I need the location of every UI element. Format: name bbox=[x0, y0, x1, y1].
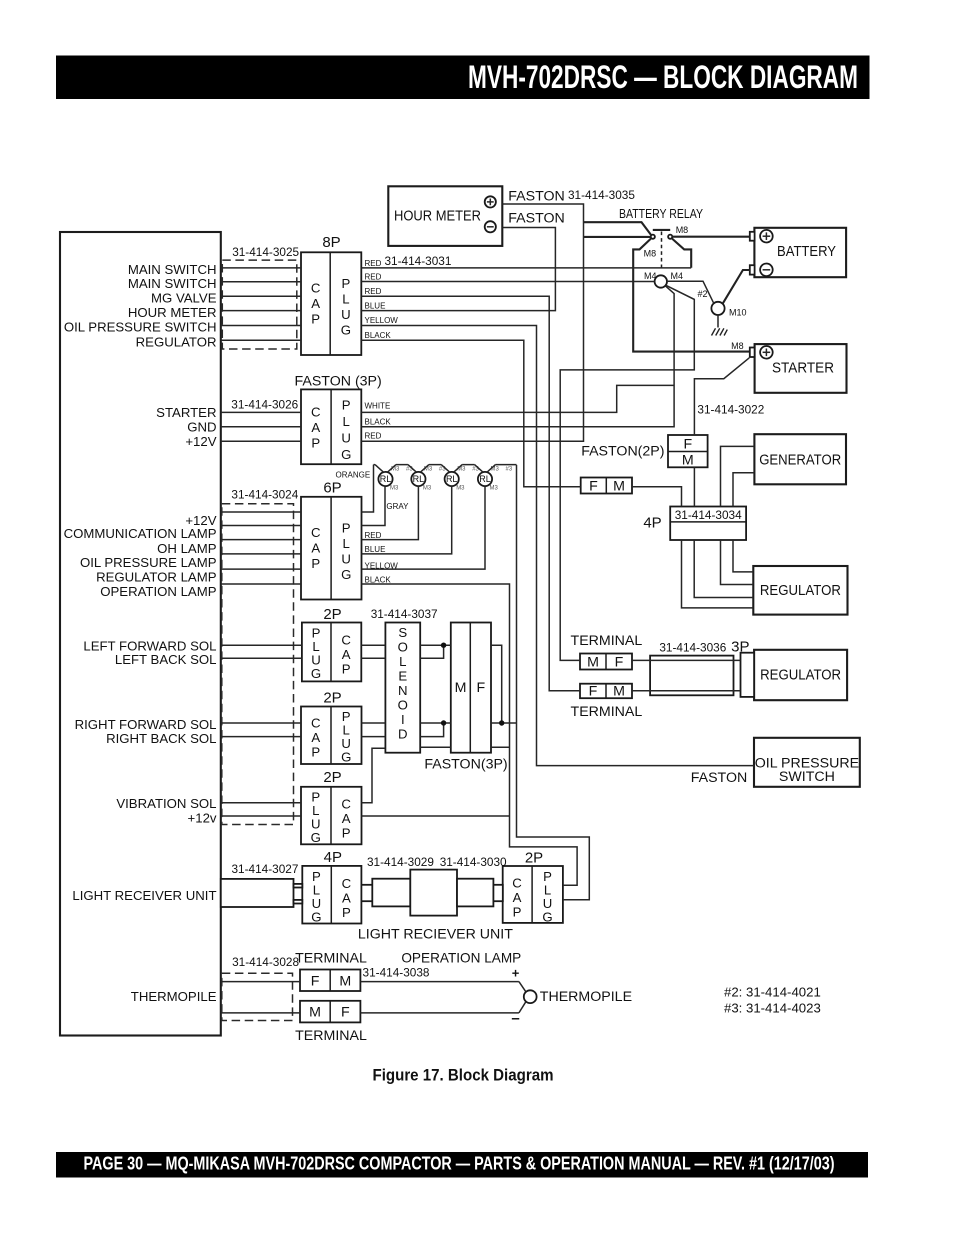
wire 3P white starter signal bbox=[361, 385, 674, 412]
svg-text:LIGHT RECIEVER UNIT: LIGHT RECIEVER UNIT bbox=[358, 926, 513, 942]
left harness labels group 2 bbox=[156, 405, 217, 449]
svg-text:M3: M3 bbox=[423, 486, 432, 492]
svg-text:P: P bbox=[513, 905, 522, 920]
starter box bbox=[731, 341, 846, 393]
svg-text:FASTON: FASTON bbox=[508, 188, 565, 204]
svg-text:2P: 2P bbox=[323, 769, 341, 786]
wire hour meter plus to 12V feed bbox=[361, 204, 583, 441]
svg-text:LEFT BACK SOL: LEFT BACK SOL bbox=[115, 652, 217, 667]
solenoid box U1 bbox=[371, 607, 438, 753]
wire generator lower to 4P bbox=[733, 473, 754, 507]
thermopile terminal F/M upper bbox=[295, 950, 367, 991]
svg-text:P: P bbox=[311, 556, 320, 571]
svg-text:L: L bbox=[343, 536, 350, 551]
svg-text:A: A bbox=[311, 420, 320, 435]
svg-text:P: P bbox=[342, 521, 351, 536]
wires harness box to 2P cap right sol bbox=[221, 723, 301, 737]
junction dot faston 3P right bbox=[499, 720, 504, 725]
relay RL1 bbox=[378, 467, 413, 492]
svg-text:–: – bbox=[511, 1010, 519, 1027]
wire vibration sol to solenoid bbox=[362, 748, 386, 803]
svg-text:M8: M8 bbox=[644, 249, 657, 259]
svg-text:REGULATOR: REGULATOR bbox=[136, 335, 217, 350]
connector 3P stub at regulator bbox=[731, 639, 754, 697]
wires harness box to 2P vibration bbox=[221, 803, 301, 816]
svg-text:O: O bbox=[398, 698, 408, 713]
svg-text:REGULATOR LAMP: REGULATOR LAMP bbox=[96, 570, 217, 585]
regulator box lower bbox=[754, 650, 847, 700]
svg-text:SWITCH: SWITCH bbox=[779, 769, 835, 785]
svg-text:M4: M4 bbox=[644, 271, 657, 281]
svg-text:G: G bbox=[311, 666, 321, 681]
svg-text:2P: 2P bbox=[323, 690, 341, 707]
svg-text:8P: 8P bbox=[322, 234, 340, 251]
wire 3P black GND to M4 bbox=[361, 286, 674, 427]
relay RL3 bbox=[445, 467, 480, 492]
svg-text:A: A bbox=[513, 890, 522, 905]
svg-text:OH LAMP: OH LAMP bbox=[157, 541, 217, 556]
svg-text:MVH-702DRSC — BLOCK DIAGRAM: MVH-702DRSC — BLOCK DIAGRAM bbox=[468, 59, 858, 95]
svg-text:BATTERY: BATTERY bbox=[777, 243, 836, 260]
svg-text:BLACK: BLACK bbox=[365, 331, 392, 340]
svg-text:BLACK: BLACK bbox=[365, 575, 392, 584]
svg-text:M: M bbox=[587, 654, 599, 670]
svg-text:M: M bbox=[339, 973, 351, 989]
svg-text:M: M bbox=[613, 684, 625, 700]
svg-text:P: P bbox=[311, 745, 320, 760]
wire 8P black to faston 2P F/M bbox=[361, 340, 580, 487]
svg-text:OIL PRESSURE SWITCH: OIL PRESSURE SWITCH bbox=[64, 320, 217, 335]
svg-text:G: G bbox=[311, 910, 321, 925]
svg-text:RL: RL bbox=[446, 474, 458, 484]
wire vibration 12v to mid column bbox=[362, 815, 510, 817]
relay RL2 bbox=[411, 467, 446, 492]
main harness box bbox=[60, 232, 221, 1036]
node M10 ground bolt bbox=[698, 289, 747, 317]
wire M4 to M10 bbox=[667, 281, 714, 303]
svg-text:F: F bbox=[341, 1005, 350, 1021]
svg-text:2P: 2P bbox=[323, 606, 341, 623]
svg-text:2P: 2P bbox=[525, 850, 543, 867]
svg-text:GND: GND bbox=[187, 420, 216, 435]
wire M4 to terminal M/F bbox=[560, 285, 694, 660]
svg-text:RED: RED bbox=[365, 259, 382, 268]
svg-text:L: L bbox=[399, 654, 406, 669]
svg-text:RL: RL bbox=[413, 474, 425, 484]
svg-text:MAIN SWITCH: MAIN SWITCH bbox=[128, 262, 217, 277]
wire 6P blue to RL3 bbox=[362, 486, 452, 554]
svg-text:P: P bbox=[342, 905, 351, 920]
light receiver box right bbox=[457, 879, 493, 907]
relay RL4 bbox=[478, 467, 513, 492]
wires harness box to thermopile terminals bbox=[221, 982, 300, 1013]
generator box bbox=[754, 434, 846, 484]
battery relay bbox=[584, 207, 750, 352]
svg-text:RIGHT FORWARD SOL: RIGHT FORWARD SOL bbox=[75, 717, 217, 732]
svg-text:REGULATOR: REGULATOR bbox=[760, 666, 841, 683]
svg-text:RL: RL bbox=[479, 474, 491, 484]
dashed loom box 31-414-3028 bbox=[222, 955, 300, 1020]
faston 2P stacked F/M connector bbox=[581, 435, 707, 469]
svg-text:M8: M8 bbox=[676, 225, 689, 235]
svg-text:3P: 3P bbox=[731, 639, 749, 656]
svg-text:LIGHT RECEIVER UNIT: LIGHT RECEIVER UNIT bbox=[72, 888, 216, 903]
svg-text:TERMINAL: TERMINAL bbox=[571, 633, 643, 649]
svg-text:M: M bbox=[682, 453, 694, 469]
svg-text:P: P bbox=[311, 436, 320, 451]
svg-text:RIGHT BACK SOL: RIGHT BACK SOL bbox=[106, 731, 216, 746]
svg-text:C: C bbox=[342, 876, 352, 891]
svg-text:P: P bbox=[342, 826, 351, 841]
light receiver unit cable rect bbox=[221, 879, 302, 907]
svg-text:TERMINAL: TERMINAL bbox=[295, 950, 367, 966]
wire RL bus tent bbox=[374, 465, 517, 473]
svg-text:C: C bbox=[311, 405, 321, 420]
svg-text:OIL PRESSURE LAMP: OIL PRESSURE LAMP bbox=[80, 555, 217, 570]
connector 31-414-3036 bbox=[650, 641, 733, 696]
svg-text:4P: 4P bbox=[324, 849, 342, 866]
svg-text:31-414-3037: 31-414-3037 bbox=[371, 607, 438, 621]
wire 6P black down mid column bbox=[362, 584, 578, 885]
svg-text:OPERATION LAMP: OPERATION LAMP bbox=[401, 951, 521, 966]
svg-text:I: I bbox=[401, 712, 405, 727]
svg-text:ORANGE: ORANGE bbox=[336, 470, 371, 479]
node M4 ground stud bbox=[644, 271, 683, 288]
svg-text:TERMINAL: TERMINAL bbox=[571, 704, 643, 720]
svg-text:A: A bbox=[342, 891, 351, 906]
svg-text:A: A bbox=[311, 296, 320, 311]
oil pressure switch box bbox=[691, 738, 860, 787]
wires harness box to 6P cap bbox=[221, 512, 301, 584]
svg-text:31-414-3028: 31-414-3028 bbox=[232, 955, 299, 969]
hour meter box bbox=[388, 186, 502, 246]
thermopile lamp bbox=[524, 989, 632, 1005]
wires 4P to regulator upper bbox=[682, 540, 754, 608]
svg-text:COMMUNICATION LAMP: COMMUNICATION LAMP bbox=[64, 526, 217, 541]
wire 8P red3 to terminal F/M bbox=[361, 296, 580, 691]
light receiver box 31-414-3030 bbox=[410, 870, 457, 916]
svg-text:GRAY: GRAY bbox=[386, 502, 409, 511]
wire faston2P F/M to 4P connector bbox=[632, 487, 682, 507]
svg-text:#3: #3 bbox=[506, 467, 513, 473]
svg-text:U: U bbox=[341, 552, 351, 567]
connector 4P 31-414-3034 bbox=[643, 507, 746, 541]
wire 8P blue to hour meter minus bbox=[361, 228, 555, 311]
svg-text:OPERATION LAMP: OPERATION LAMP bbox=[100, 584, 216, 599]
svg-text:#2: 31-414-4021: #2: 31-414-4021 bbox=[724, 985, 821, 1000]
connector FASTON (3P) cap/plug bbox=[295, 374, 382, 465]
svg-text:RED: RED bbox=[365, 432, 382, 441]
svg-text:+12V: +12V bbox=[185, 434, 216, 449]
svg-text:M3: M3 bbox=[456, 486, 465, 492]
svg-text:BATTERY RELAY: BATTERY RELAY bbox=[619, 207, 703, 221]
wires harness box to 8P cap bbox=[221, 268, 301, 340]
wire 6P yellow to RL4 bbox=[362, 486, 486, 569]
wire color labels 8P bbox=[365, 259, 399, 340]
connector 2P cap/plug right sol bbox=[301, 690, 362, 765]
svg-text:G: G bbox=[341, 750, 351, 765]
wires harness box to 2P plug left sol bbox=[221, 645, 302, 658]
svg-text:M4: M4 bbox=[671, 271, 684, 281]
svg-text:TERMINAL: TERMINAL bbox=[295, 1028, 367, 1044]
wires terminals through 31-414-3036 to 3P stub bbox=[632, 660, 741, 690]
relay feed wire upper bbox=[584, 222, 651, 235]
svg-text:HOUR METER: HOUR METER bbox=[394, 209, 481, 225]
svg-text:#3: 31-414-4023: #3: 31-414-4023 bbox=[724, 1001, 821, 1016]
svg-text:31-414-3030: 31-414-3030 bbox=[440, 855, 507, 869]
wire 6P gray to RL1 bbox=[362, 486, 386, 525]
connector 2P plug/cap vibration sol bbox=[301, 769, 362, 845]
wire 6P orange to RL bus bbox=[362, 466, 374, 513]
svg-text:A: A bbox=[311, 730, 320, 745]
svg-text:31-414-3025: 31-414-3025 bbox=[232, 245, 299, 259]
light receiver box 31-414-3029 bbox=[372, 879, 410, 907]
svg-text:M: M bbox=[455, 680, 467, 696]
svg-text:U: U bbox=[341, 307, 351, 322]
svg-text:MG VALVE: MG VALVE bbox=[151, 291, 217, 306]
svg-text:P: P bbox=[342, 276, 351, 291]
svg-text:31-414-3026: 31-414-3026 bbox=[231, 398, 298, 412]
svg-text:C: C bbox=[311, 525, 321, 540]
left harness labels group 1 bbox=[64, 262, 217, 350]
svg-text:THERMOPILE: THERMOPILE bbox=[131, 989, 217, 1004]
dashed loom box 31-414-3024 bbox=[222, 487, 299, 824]
junction dots solenoid left bbox=[441, 643, 446, 648]
svg-text:BLUE: BLUE bbox=[365, 545, 386, 554]
svg-text:RED: RED bbox=[365, 273, 382, 282]
svg-text:PAGE 30 — MQ-MIKASA MVH-702DRS: PAGE 30 — MQ-MIKASA MVH-702DRSC COMPACTO… bbox=[84, 1154, 835, 1174]
left harness labels group 3 bbox=[64, 513, 217, 599]
svg-text:31-414-3031: 31-414-3031 bbox=[385, 254, 452, 268]
svg-text:GENERATOR: GENERATOR bbox=[759, 452, 841, 469]
wires solenoid to faston 3P M/F with junctions bbox=[420, 645, 451, 747]
svg-text:FASTON (3P): FASTON (3P) bbox=[295, 374, 382, 390]
connector 2P cap/plug light receiver bbox=[503, 850, 563, 925]
wire battery minus to M10 bbox=[723, 270, 750, 303]
svg-text:G: G bbox=[311, 830, 321, 845]
svg-text:G: G bbox=[341, 447, 351, 462]
terminal M/F upper bbox=[571, 633, 643, 671]
wire color labels 3P bbox=[365, 401, 392, 440]
svg-text:F: F bbox=[683, 436, 692, 452]
svg-text:4P: 4P bbox=[643, 514, 661, 531]
operation lamp wiring bbox=[360, 951, 526, 1027]
faston 3P M/F connector bbox=[424, 623, 507, 773]
svg-text:YELLOW: YELLOW bbox=[365, 316, 399, 325]
svg-text:FASTON(2P): FASTON(2P) bbox=[581, 444, 664, 460]
svg-text:+: + bbox=[512, 966, 520, 981]
terminal F/M lower bbox=[571, 684, 643, 720]
svg-text:M10: M10 bbox=[729, 307, 747, 317]
wire generator upper to 4P bbox=[721, 446, 755, 506]
svg-text:F: F bbox=[311, 973, 320, 989]
svg-text:A: A bbox=[311, 541, 320, 556]
svg-text:M: M bbox=[613, 478, 625, 494]
svg-text:31-414-3027: 31-414-3027 bbox=[232, 862, 299, 876]
wire relay right contact to battery plus bbox=[672, 236, 750, 238]
connector 6P cap/plug bbox=[301, 480, 362, 600]
svg-text:VIBRATION SOL: VIBRATION SOL bbox=[116, 796, 216, 811]
svg-text:N: N bbox=[398, 683, 408, 698]
svg-text:BLUE: BLUE bbox=[365, 301, 386, 310]
svg-text:FASTON(3P): FASTON(3P) bbox=[424, 756, 507, 772]
svg-text:31-414-3038: 31-414-3038 bbox=[363, 966, 430, 980]
svg-text:MAIN SWITCH: MAIN SWITCH bbox=[128, 276, 217, 291]
svg-text:M: M bbox=[309, 1005, 321, 1021]
svg-text:F: F bbox=[615, 654, 624, 670]
connector 4P plug/cap light receiver bbox=[302, 849, 361, 925]
faston 2P horizontal F/M connector bbox=[581, 478, 632, 495]
svg-text:P: P bbox=[311, 312, 320, 327]
wires 2P left sol cap to solenoid bbox=[361, 645, 385, 658]
relay left bracket to starter M8 wire bbox=[633, 239, 750, 352]
svg-text:G: G bbox=[341, 323, 351, 338]
svg-text:F: F bbox=[476, 680, 485, 696]
svg-text:M3: M3 bbox=[490, 486, 499, 492]
wires harness box to 3P cap bbox=[221, 412, 301, 441]
title banner bbox=[56, 56, 870, 100]
svg-text:U: U bbox=[341, 431, 351, 446]
ground bbox=[712, 315, 728, 336]
svg-text:G: G bbox=[542, 910, 552, 925]
spare part note bbox=[724, 985, 821, 1016]
wire 6P red to RL2 bbox=[362, 486, 419, 539]
svg-text:#2: #2 bbox=[698, 289, 708, 299]
svg-text:P: P bbox=[342, 398, 351, 413]
wire 8P red1 to relay coil bbox=[361, 267, 691, 269]
svg-text:WHITE: WHITE bbox=[365, 401, 391, 410]
svg-text:HOUR METER: HOUR METER bbox=[128, 305, 217, 320]
svg-text:THERMOPILE: THERMOPILE bbox=[540, 989, 632, 1005]
wire 8P red2 to M4 bbox=[361, 281, 654, 283]
svg-text:RED: RED bbox=[365, 531, 382, 540]
svg-text:M3: M3 bbox=[390, 486, 399, 492]
svg-text:D: D bbox=[398, 727, 408, 742]
svg-text:C: C bbox=[311, 716, 321, 731]
svg-text:O: O bbox=[398, 640, 408, 655]
svg-text:FASTON: FASTON bbox=[691, 770, 748, 786]
svg-text:REGULATOR: REGULATOR bbox=[760, 582, 841, 599]
relay feed wire lower bbox=[584, 236, 651, 238]
dashed loom box 31-414-3025 bbox=[222, 245, 299, 349]
svg-text:31-414-3024: 31-414-3024 bbox=[231, 487, 298, 501]
svg-text:S: S bbox=[398, 625, 407, 640]
svg-text:C: C bbox=[512, 876, 522, 891]
svg-text:31-414-3034: 31-414-3034 bbox=[675, 508, 742, 522]
svg-text:F: F bbox=[589, 478, 598, 494]
relay right bracket bbox=[672, 239, 691, 268]
svg-text:L: L bbox=[342, 292, 349, 307]
left harness labels group 4 bbox=[83, 639, 216, 667]
svg-text:G: G bbox=[341, 567, 351, 582]
svg-text:STARTER: STARTER bbox=[156, 405, 216, 420]
svg-text:31-414-3022: 31-414-3022 bbox=[697, 403, 764, 417]
left harness labels group 6 bbox=[116, 796, 217, 826]
svg-text:31-414-3029: 31-414-3029 bbox=[367, 855, 434, 869]
svg-text:E: E bbox=[398, 669, 407, 684]
wires faston 3P M/F right side bbox=[491, 645, 517, 747]
svg-text:C: C bbox=[341, 797, 351, 812]
svg-text:+12v: +12v bbox=[188, 811, 217, 826]
connector 8P cap/plug bbox=[301, 234, 361, 355]
svg-text:A: A bbox=[342, 811, 351, 826]
wire faston 2P box to starter M8 bbox=[694, 358, 749, 435]
wire RL bus down to 2P light receiver bbox=[517, 465, 590, 900]
footer banner bbox=[56, 1152, 868, 1178]
light receiver chain neck right bbox=[493, 885, 502, 901]
svg-text:STARTER: STARTER bbox=[772, 359, 834, 376]
svg-text:Figure 17. Block Diagram: Figure 17. Block Diagram bbox=[373, 1066, 554, 1085]
svg-text:M8: M8 bbox=[731, 341, 744, 351]
wire faston2P stacked to 4P connector bbox=[693, 467, 695, 506]
thermopile terminal M/F lower bbox=[295, 1001, 367, 1044]
wire 8P yellow to oil pressure switch bbox=[361, 326, 754, 766]
svg-text:A: A bbox=[342, 647, 351, 662]
svg-text:RL: RL bbox=[380, 474, 392, 484]
svg-text:C: C bbox=[311, 281, 321, 296]
svg-text:FASTON: FASTON bbox=[508, 210, 565, 226]
wires 2P right sol cap to solenoid bbox=[362, 723, 386, 737]
light receiver chain neck left bbox=[361, 885, 372, 901]
battery box bbox=[750, 228, 846, 277]
wire color labels 6P bbox=[336, 470, 410, 584]
svg-text:P: P bbox=[342, 662, 351, 677]
regulator box upper bbox=[753, 566, 847, 615]
svg-text:RED: RED bbox=[365, 287, 382, 296]
svg-text:C: C bbox=[341, 633, 351, 648]
svg-text:31-414-3035: 31-414-3035 bbox=[568, 188, 635, 202]
svg-text:L: L bbox=[343, 414, 350, 429]
svg-text:6P: 6P bbox=[323, 480, 341, 497]
left harness labels group 5 bbox=[75, 717, 217, 746]
svg-text:F: F bbox=[589, 684, 598, 700]
svg-text:31-414-3036: 31-414-3036 bbox=[659, 641, 726, 655]
svg-text:BLACK: BLACK bbox=[365, 418, 392, 427]
connector 2P plug/cap left forward sol bbox=[302, 606, 361, 681]
